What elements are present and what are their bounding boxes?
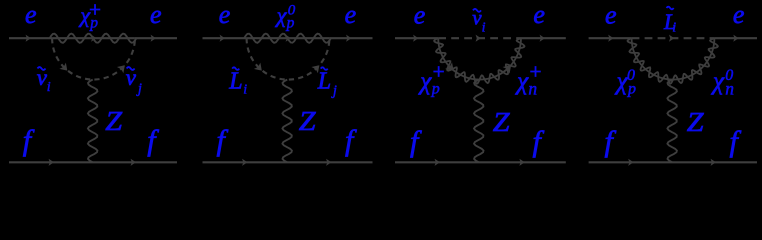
arrow on incoming fermion line (diagram 1) [49, 159, 54, 166]
svg-text:e: e [533, 0, 545, 29]
svg-text:f: f [730, 125, 742, 158]
arrow on left half of chargino arc (diagram 3) [445, 62, 457, 74]
propagator: wavy coil superimposed on arc (diagram 3) [434, 38, 524, 83]
arrow on incoming electron line (diagram 3) [413, 35, 418, 42]
propagator: sfermion dashed arc loop (diagram 2) [247, 38, 330, 79]
propagator: Z boson wavy line (diagram 1) [88, 80, 98, 163]
svg-text:L: L [317, 69, 331, 95]
svg-text:Z: Z [299, 106, 317, 136]
wire: fermion line f to f (diagram 4) [589, 161, 757, 163]
propagator: sfermion dashed arc loop (diagram 1) [52, 38, 135, 79]
wire: outgoing electron line e (diagram 2) [329, 37, 372, 39]
svg-text:f: f [345, 124, 357, 157]
propagator: Z boson wavy line (diagram 3) [474, 80, 484, 163]
arrow at middle of chi segment (diagram 2) [286, 35, 291, 42]
arrow on outgoing fermion line (diagram 4) [711, 159, 716, 166]
arrow at middle of sfermion segment (diagram 4) [669, 35, 674, 42]
svg-text:L: L [228, 69, 242, 95]
svg-text:Z: Z [105, 106, 123, 136]
arrow on outgoing fermion line (diagram 1) [131, 159, 136, 166]
arrow at middle of sfermion segment (diagram 3) [476, 35, 481, 42]
svg-text:Z: Z [493, 107, 511, 137]
wire: incoming electron line e (diagram 2) [203, 37, 247, 39]
arrow on outgoing electron line (diagram 2) [346, 35, 351, 42]
arrow on incoming electron line (diagram 4) [608, 35, 613, 42]
svg-text:f: f [147, 124, 159, 157]
svg-text:0: 0 [288, 3, 296, 19]
svg-text:+: + [88, 0, 102, 22]
propagator: Z boson wavy line (diagram 2) [282, 80, 292, 163]
wire: incoming electron line e (diagram 1) [9, 37, 52, 39]
arrow on incoming electron line (diagram 1) [26, 35, 31, 42]
svg-text:χ: χ [418, 68, 432, 95]
arrow on outgoing fermion line (diagram 3) [519, 159, 524, 166]
wire: outgoing electron line e (diagram 4) [714, 37, 757, 39]
svg-text:f: f [605, 125, 617, 158]
svg-text:e: e [219, 0, 231, 29]
svg-text:f: f [23, 124, 35, 157]
svg-text:j: j [136, 81, 142, 97]
wire: incoming electron line e (diagram 4) [589, 37, 632, 39]
propagator: Z boson wavy line (diagram 4) [667, 80, 677, 163]
svg-text:i: i [47, 80, 51, 95]
propagator: wavy coil superimposed on arc (diagram 4) [628, 38, 718, 83]
svg-text:j: j [331, 83, 337, 99]
svg-text:Z: Z [687, 107, 705, 137]
wire: outgoing electron line e (diagram 1) [135, 37, 177, 39]
svg-text:0: 0 [627, 67, 635, 84]
svg-text:f: f [217, 124, 229, 157]
arrow on outgoing electron line (diagram 1) [151, 35, 156, 42]
svg-text:+: + [528, 60, 542, 84]
arrow on outgoing fermion line (diagram 2) [326, 159, 331, 166]
arrow on incoming fermion line (diagram 3) [435, 159, 440, 166]
arrow on incoming fermion line (diagram 4) [628, 159, 633, 166]
arrow on left half of sfermion arc (diagram 2) [254, 63, 265, 74]
wire: fermion line f to f (diagram 3) [395, 161, 566, 163]
wire: outgoing electron line e (diagram 3) [521, 37, 566, 39]
propagator: chargino/neutralino arc straight part (diagram 3) [438, 38, 521, 79]
svg-text:i: i [243, 82, 247, 97]
svg-text:f: f [410, 125, 422, 158]
arrow at middle of chi segment (diagram 1) [91, 35, 96, 42]
arrow on right half of chargino arc (diagram 3) [503, 62, 515, 74]
propagator: chargino/neutralino arc straight part (diagram 4) [632, 38, 715, 79]
propagator: wavy line superimposed, chi (diagram 2) [244, 34, 331, 43]
svg-text:e: e [414, 0, 426, 29]
arrow on left half of sfermion arc (diagram 1) [59, 63, 70, 74]
svg-text:+: + [431, 60, 445, 84]
svg-text:e: e [150, 0, 162, 29]
svg-text:e: e [733, 0, 745, 29]
propagator: chargino/neutralino straight segment between loop vertices (diagram 1) [52, 37, 135, 39]
wire: incoming electron line e (diagram 3) [395, 37, 438, 39]
arrow on incoming fermion line (diagram 2) [242, 159, 247, 166]
svg-text:i: i [672, 20, 676, 35]
arrow on incoming electron line (diagram 2) [220, 35, 225, 42]
svg-text:0: 0 [725, 67, 733, 84]
propagator: wavy line superimposed, chi (diagram 1) [50, 34, 137, 43]
svg-text:i: i [482, 20, 486, 35]
svg-text:χ: χ [515, 68, 529, 95]
propagator: sfermion dashed top segment (diagram 4) [632, 37, 715, 39]
wire: fermion line f to f (diagram 1) [9, 161, 177, 163]
svg-text:f: f [533, 125, 545, 158]
propagator: sfermion dashed top segment (diagram 3) [438, 37, 521, 39]
svg-text:e: e [605, 1, 617, 30]
arrow on outgoing electron line (diagram 4) [733, 35, 738, 42]
propagator: chargino/neutralino straight segment between loop vertices (diagram 2) [247, 37, 330, 39]
arrow on outgoing electron line (diagram 3) [540, 35, 545, 42]
arrow on right half of sfermion arc (diagram 1) [117, 62, 128, 73]
svg-text:χ: χ [711, 68, 725, 95]
wire: fermion line f to f (diagram 2) [203, 161, 373, 163]
arrow on right half of sfermion arc (diagram 2) [311, 62, 322, 73]
svg-text:e: e [345, 0, 357, 29]
svg-text:e: e [25, 0, 37, 29]
